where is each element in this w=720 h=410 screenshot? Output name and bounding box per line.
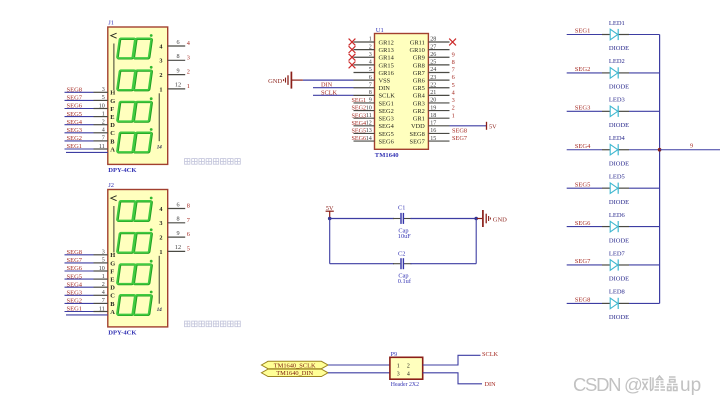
svg-text:SEG6: SEG6 <box>379 138 394 145</box>
svg-text:GR14: GR14 <box>379 55 395 62</box>
svg-text:Header 2X2: Header 2X2 <box>391 382 419 388</box>
svg-text:6: 6 <box>176 39 179 46</box>
U1 left pin 10 SEG2 <box>354 105 394 115</box>
svg-text:3: 3 <box>102 250 105 256</box>
svg-text:3: 3 <box>159 220 162 227</box>
J2 extra wire below pin A <box>66 314 108 316</box>
svg-text:F: F <box>110 268 114 275</box>
svg-text:5: 5 <box>102 258 105 264</box>
wire port DIN to header <box>328 372 390 374</box>
no-connect X on U1 pin 28 <box>449 39 456 46</box>
J1 pin 9 (digit 2) net 2 <box>159 67 190 79</box>
svg-text:J2: J2 <box>108 182 114 189</box>
svg-text:GR9: GR9 <box>413 55 425 62</box>
svg-text:DPY-4CK: DPY-4CK <box>108 167 137 174</box>
svg-text:SEG6: SEG6 <box>67 103 83 110</box>
svg-text:DIODE: DIODE <box>609 199 629 206</box>
J2 pin 8 (digit 3) net 7 <box>159 216 190 228</box>
J1 pin 6 (digit 4) net 4 <box>159 39 190 51</box>
svg-text:SEG4: SEG4 <box>379 123 395 130</box>
U1 right pin 21 GR4 <box>413 90 450 100</box>
svg-text:22: 22 <box>430 82 436 88</box>
svg-text:G: G <box>110 98 115 105</box>
svg-text:SEG3: SEG3 <box>67 290 83 297</box>
svg-text:SEG7: SEG7 <box>67 95 83 102</box>
J2 7-seg digit 1 <box>117 197 153 221</box>
LED4 diode <box>567 144 660 155</box>
svg-text:9: 9 <box>176 67 179 74</box>
svg-text:B: B <box>110 301 115 308</box>
watermark CSDN @liuxinleiup <box>573 374 701 396</box>
svg-text:1: 1 <box>369 37 372 43</box>
U1 right pin 25 GR8 <box>413 60 450 70</box>
svg-text:21: 21 <box>430 90 436 96</box>
svg-text:1: 1 <box>159 249 162 256</box>
svg-text:LED7: LED7 <box>609 250 626 257</box>
svg-text:20: 20 <box>430 98 436 104</box>
svg-text:GND: GND <box>268 78 282 85</box>
J2 pin 7 (B) net SEG2 <box>65 298 116 308</box>
svg-text:28: 28 <box>430 37 436 43</box>
svg-text:4: 4 <box>369 60 372 66</box>
svg-text:SCLK: SCLK <box>482 351 499 358</box>
svg-text:2: 2 <box>452 105 455 112</box>
svg-text:C1: C1 <box>398 205 405 212</box>
wire SCLK to U1 pin 8 <box>313 94 354 96</box>
svg-text:SEG3: SEG3 <box>67 127 83 134</box>
svg-text:up: up <box>680 375 701 396</box>
svg-text:SEG7: SEG7 <box>67 257 83 264</box>
svg-text:DPY-4CK: DPY-4CK <box>108 329 137 336</box>
U1 left pin 2 GR13 <box>354 44 394 54</box>
wire 5V to C1 <box>330 218 394 220</box>
svg-text:G: G <box>110 260 115 267</box>
svg-text:19: 19 <box>430 105 436 111</box>
J1 pin 5 (G) net SEG7 <box>65 95 116 105</box>
svg-text:GR12: GR12 <box>379 39 394 46</box>
U1 left pin 9 SEG1 <box>354 98 394 108</box>
U1 right pin 17 VDD <box>411 121 450 131</box>
svg-text:SEG5: SEG5 <box>352 129 367 135</box>
J1 7-seg digit 2 <box>117 66 153 90</box>
svg-text:GR15: GR15 <box>379 62 394 69</box>
svg-text:25: 25 <box>430 60 436 66</box>
ground symbol right of C1 <box>477 210 491 227</box>
U1 right pin 22 GR5 <box>413 82 450 92</box>
svg-text:SEG1: SEG1 <box>67 306 83 313</box>
svg-text:SEG1: SEG1 <box>379 100 394 107</box>
svg-text:7: 7 <box>369 82 372 88</box>
junction dot at right vertical <box>474 217 478 221</box>
svg-text:10: 10 <box>99 103 105 109</box>
J2 7-seg digit 2 <box>117 228 153 252</box>
J2 pin 10 (F) net SEG6 <box>65 265 115 275</box>
svg-text:6: 6 <box>187 231 190 238</box>
no-connect X on U1 pin 3 <box>349 54 356 61</box>
svg-text:CSDN @: CSDN @ <box>573 374 642 395</box>
svg-text:5V: 5V <box>489 123 497 130</box>
svg-text:3: 3 <box>397 371 400 377</box>
svg-text:24: 24 <box>430 67 436 73</box>
J1 pin 12 (digit 1) net 1 <box>159 82 190 94</box>
svg-text:SEG1: SEG1 <box>67 143 83 150</box>
U1 left pin 13 SEG5 <box>354 128 394 138</box>
U1 left pin 3 GR14 <box>354 52 395 62</box>
J2 pin 3 (H) net SEG8 <box>65 249 116 259</box>
svg-text:SEG3: SEG3 <box>379 116 394 123</box>
port TM1640_DIN <box>261 369 328 377</box>
wire port SCLK to header <box>328 364 390 366</box>
wire bottom left to C2 <box>330 263 394 265</box>
+5V power port at U1 VDD <box>486 122 488 130</box>
svg-text:9: 9 <box>690 143 693 150</box>
svg-text:C: C <box>110 293 115 300</box>
svg-text:SEG8: SEG8 <box>575 297 591 304</box>
U1 left pin 5 GR16 <box>354 67 394 77</box>
svg-text:DIN: DIN <box>321 82 333 89</box>
svg-text:E: E <box>110 114 114 121</box>
svg-text:P9: P9 <box>391 351 398 358</box>
svg-text:12: 12 <box>175 82 181 89</box>
svg-text:SEG3: SEG3 <box>352 113 367 119</box>
svg-text:GR2: GR2 <box>413 108 425 115</box>
svg-text:GR6: GR6 <box>413 78 425 85</box>
svg-text:11: 11 <box>366 113 372 119</box>
J2 pin 4 (C) net SEG3 <box>65 290 116 300</box>
svg-text:DIODE: DIODE <box>609 160 629 167</box>
svg-text:7: 7 <box>187 217 190 224</box>
svg-text:SEG1: SEG1 <box>352 98 367 104</box>
svg-text:SEG5: SEG5 <box>67 111 83 118</box>
svg-text:GR11: GR11 <box>410 39 425 46</box>
svg-text:LED5: LED5 <box>609 173 625 180</box>
J2 pin 2 (D) net SEG4 <box>65 281 116 291</box>
svg-text:13: 13 <box>366 128 372 134</box>
svg-text:GR7: GR7 <box>413 70 426 77</box>
no-connect X on U1 pin 1 <box>349 39 356 46</box>
+5V power port above capacitor loop <box>326 205 334 218</box>
svg-text:1: 1 <box>102 111 105 117</box>
svg-text:C: C <box>110 130 115 137</box>
svg-text:4: 4 <box>407 371 410 377</box>
U1 left pin 7 DIN <box>354 82 391 92</box>
svg-text:SEG8: SEG8 <box>67 249 83 256</box>
svg-text:2: 2 <box>369 44 372 50</box>
svg-text:3: 3 <box>187 54 190 61</box>
svg-text:GR16: GR16 <box>379 70 394 77</box>
LED6 diode <box>567 221 660 232</box>
J2 7-seg digit 4 <box>117 291 153 315</box>
svg-text:D: D <box>110 285 115 292</box>
svg-text:LED1: LED1 <box>609 20 625 27</box>
svg-text:SEG2: SEG2 <box>67 298 83 305</box>
svg-text:3: 3 <box>159 58 162 65</box>
wire right vertical of cap loop <box>475 219 477 264</box>
svg-text:SEG6: SEG6 <box>352 136 367 142</box>
wire C1 to GND <box>411 218 478 220</box>
svg-text:SEG2: SEG2 <box>575 66 591 73</box>
svg-text:SEG4: SEG4 <box>352 121 367 127</box>
svg-text:SEG4: SEG4 <box>67 281 83 288</box>
display J2 DPY-4CK body <box>108 190 168 327</box>
svg-text:LED8: LED8 <box>609 289 625 296</box>
svg-text:2: 2 <box>159 235 162 242</box>
svg-text:5: 5 <box>187 245 190 252</box>
svg-text:SEG8: SEG8 <box>410 131 425 138</box>
svg-text:SCLK: SCLK <box>379 93 396 100</box>
wire C2 to right vertical <box>411 263 477 265</box>
svg-text:C2: C2 <box>398 251 405 258</box>
svg-text:14: 14 <box>366 136 372 142</box>
J1 pin 11 (A) net SEG1 <box>65 143 116 153</box>
svg-text:SCLK: SCLK <box>321 89 338 96</box>
svg-text:12: 12 <box>175 244 181 251</box>
U1 left pin 4 GR15 <box>354 60 394 70</box>
svg-text:DIODE: DIODE <box>609 314 629 321</box>
svg-text:8: 8 <box>187 203 190 210</box>
wire header pin2 to SCLK label <box>423 355 481 365</box>
svg-text:8: 8 <box>452 59 455 66</box>
svg-text:B: B <box>110 138 115 145</box>
svg-text:GR3: GR3 <box>413 100 425 107</box>
LED3 diode <box>567 106 660 117</box>
svg-text:SEG5: SEG5 <box>379 131 394 138</box>
U1 left pin 6 VSS <box>354 75 391 85</box>
svg-text:LED4: LED4 <box>609 135 626 142</box>
svg-text:1: 1 <box>102 274 105 280</box>
J2 pin 12 (digit 1) net 5 <box>159 244 190 256</box>
svg-text:LED6: LED6 <box>609 212 626 219</box>
U1 right pin 16 SEG8 <box>410 128 450 138</box>
wire U1 VSS to GND <box>303 79 354 81</box>
J1 pin 2 (D) net SEG4 <box>65 119 116 129</box>
svg-text:2: 2 <box>187 69 190 76</box>
svg-text:5: 5 <box>369 67 372 73</box>
svg-text:LED3: LED3 <box>609 97 625 104</box>
svg-text:DIODE: DIODE <box>609 45 629 52</box>
port TM1640_SCLK <box>261 361 328 369</box>
svg-text:1: 1 <box>452 112 455 119</box>
junction dot at LED4 row <box>658 148 662 152</box>
P9 pin numbers <box>397 363 410 377</box>
svg-text:12: 12 <box>366 121 372 127</box>
vertical bus wire joining LED cathodes <box>659 35 661 304</box>
LED2 diode <box>567 67 660 78</box>
U1 right pin 26 GR9 <box>413 52 450 62</box>
svg-text:1: 1 <box>187 83 190 90</box>
header P9 body <box>390 357 423 379</box>
svg-text:9: 9 <box>369 98 372 104</box>
J2 pin 1 (E) net SEG5 <box>65 273 115 283</box>
J1 pin 1 (E) net SEG5 <box>65 111 115 121</box>
IC U1 TM1640 body <box>375 34 429 150</box>
U1 right pin 15 SEG7 <box>410 136 450 146</box>
no-connect X on U1 pin 4 <box>349 62 356 69</box>
svg-text:0.1uf: 0.1uf <box>398 278 412 285</box>
svg-text:GR5: GR5 <box>413 85 425 92</box>
annotation text beside J2 <box>185 321 241 327</box>
U1 right pin 27 GR10 <box>410 44 450 54</box>
svg-text:2: 2 <box>102 282 105 288</box>
svg-text:3: 3 <box>452 97 455 104</box>
U1 right pin 24 GR7 <box>413 67 450 77</box>
svg-text:SEG5: SEG5 <box>575 181 591 188</box>
J1 pin 3 (H) net SEG8 <box>65 87 116 97</box>
svg-text:DIODE: DIODE <box>609 237 629 244</box>
svg-text:DIODE: DIODE <box>609 84 629 91</box>
J1 pin 8 (digit 3) net 3 <box>159 53 190 65</box>
J1 7-seg digit 4 <box>117 128 153 152</box>
J2 7-seg digit 3 <box>117 260 153 284</box>
svg-text:SEG3: SEG3 <box>575 105 591 112</box>
svg-text:6: 6 <box>176 201 179 208</box>
svg-text:10: 10 <box>366 105 372 111</box>
svg-text:GND: GND <box>493 216 507 223</box>
J2 pin 6 (digit 4) net 8 <box>159 201 190 213</box>
svg-text:7: 7 <box>102 136 105 142</box>
svg-text:DIODE: DIODE <box>609 122 629 129</box>
svg-text:H: H <box>110 90 115 97</box>
svg-text:6: 6 <box>369 75 372 81</box>
svg-text:4: 4 <box>102 290 105 296</box>
svg-text:SEG2: SEG2 <box>352 106 367 112</box>
ground symbol at U1 VSS <box>284 72 303 89</box>
LED5 diode <box>567 183 660 194</box>
svg-text:TM1640: TM1640 <box>375 152 400 159</box>
svg-text:E: E <box>110 277 114 284</box>
svg-text:TM1640_SCLK: TM1640_SCLK <box>274 362 316 369</box>
U1 right pin 23 GR6 <box>413 75 450 85</box>
J2 pin 5 (G) net SEG7 <box>65 257 116 267</box>
svg-text:8: 8 <box>176 53 179 60</box>
svg-text:7: 7 <box>102 298 105 304</box>
svg-text:10uF: 10uF <box>398 233 411 240</box>
svg-text:8: 8 <box>369 90 372 96</box>
svg-text:SEG1: SEG1 <box>575 28 591 35</box>
capacitor C1 <box>393 213 412 224</box>
svg-text:LED2: LED2 <box>609 58 625 65</box>
display J1 DPY-4CK body <box>108 27 168 164</box>
U1 left pin 14 SEG6 <box>354 136 394 146</box>
svg-text:2: 2 <box>102 120 105 126</box>
svg-text:U1: U1 <box>376 27 384 34</box>
svg-text:SEG6: SEG6 <box>67 265 83 272</box>
wire from bus to net 9 at right edge <box>660 149 720 151</box>
svg-text:2: 2 <box>407 363 410 369</box>
svg-text:6: 6 <box>452 74 455 81</box>
U1 right pin 18 GR1 <box>413 113 450 123</box>
LED8 diode <box>567 298 660 309</box>
J1 pin 4 (C) net SEG3 <box>65 127 116 137</box>
svg-text:VSS: VSS <box>379 78 391 85</box>
svg-text:H: H <box>110 252 115 259</box>
svg-text:17: 17 <box>430 121 436 127</box>
svg-text:5: 5 <box>452 82 455 89</box>
J2 pin 9 (digit 2) net 6 <box>159 230 190 242</box>
LED1 diode <box>567 29 660 40</box>
svg-text:14: 14 <box>157 146 163 151</box>
J1 7-seg digit 3 <box>117 97 153 121</box>
svg-text:VDD: VDD <box>411 123 425 130</box>
svg-text:DIN: DIN <box>379 85 391 92</box>
svg-text:18: 18 <box>430 113 436 119</box>
svg-text:3: 3 <box>102 87 105 93</box>
annotation text beside J1 <box>185 159 241 165</box>
J1 extra wire below pin A <box>66 151 108 153</box>
svg-text:23: 23 <box>430 75 436 81</box>
svg-text:SEG6: SEG6 <box>575 220 591 227</box>
svg-text:8: 8 <box>176 216 179 223</box>
J1 pin 10 (F) net SEG6 <box>65 103 115 113</box>
wire U1 VDD to +5V <box>450 125 487 127</box>
wire DIN to U1 pin 7 <box>313 87 354 89</box>
svg-text:3: 3 <box>369 52 372 58</box>
svg-text:5: 5 <box>102 95 105 101</box>
svg-text:1: 1 <box>159 86 162 93</box>
J1 7-seg digit 1 <box>117 34 153 58</box>
wire header pin4 to DIN label <box>423 373 482 384</box>
svg-text:GR1: GR1 <box>413 116 425 123</box>
svg-text:14: 14 <box>157 308 163 313</box>
svg-text:TM1640_DIN: TM1640_DIN <box>276 370 313 377</box>
svg-text:A: A <box>110 309 115 316</box>
svg-text:SEG7: SEG7 <box>575 258 591 265</box>
svg-text:GR13: GR13 <box>379 47 394 54</box>
svg-text:16: 16 <box>430 128 436 134</box>
svg-text:SEG2: SEG2 <box>379 108 394 115</box>
svg-text:1: 1 <box>397 363 400 369</box>
J2 pin 11 (A) net SEG1 <box>65 306 116 316</box>
junction dot at 5V corner <box>328 217 332 221</box>
svg-text:9: 9 <box>452 51 455 58</box>
U1 left pin 12 SEG4 <box>354 121 395 131</box>
svg-text:DIODE: DIODE <box>609 276 629 283</box>
svg-text:11: 11 <box>99 144 105 150</box>
svg-text:26: 26 <box>430 52 436 58</box>
svg-text:GR10: GR10 <box>410 47 425 54</box>
svg-text:2: 2 <box>159 72 162 79</box>
no-connect X on U1 pin 2 <box>349 46 356 53</box>
U1 right pin 28 GR11 <box>410 37 450 47</box>
svg-text:GR4: GR4 <box>413 93 426 100</box>
svg-text:J1: J1 <box>108 20 114 27</box>
svg-text:GR8: GR8 <box>413 62 425 69</box>
svg-text:A: A <box>110 146 115 153</box>
svg-text:DIN: DIN <box>485 381 497 388</box>
svg-text:SEG7: SEG7 <box>410 138 426 145</box>
U1 left pin 8 SCLK <box>354 90 396 100</box>
svg-text:27: 27 <box>430 44 436 50</box>
svg-text:SEG5: SEG5 <box>67 273 83 280</box>
svg-text:D: D <box>110 122 115 129</box>
svg-text:11: 11 <box>99 306 105 312</box>
U1 left pin 11 SEG3 <box>354 113 394 123</box>
capacitor C2 <box>393 258 412 269</box>
svg-text:SEG4: SEG4 <box>575 143 591 150</box>
svg-text:15: 15 <box>430 136 436 142</box>
wire left vertical of cap loop <box>329 219 331 264</box>
svg-text:SEG7: SEG7 <box>452 135 467 142</box>
svg-text:F: F <box>110 106 114 113</box>
U1 right pin 20 GR3 <box>413 98 450 108</box>
LED7 diode <box>567 259 660 270</box>
J1 pin 7 (B) net SEG2 <box>65 135 116 145</box>
svg-text:SEG8: SEG8 <box>67 87 83 94</box>
U1 right pin 19 GR2 <box>413 105 450 115</box>
svg-text:4: 4 <box>102 128 105 134</box>
svg-text:10: 10 <box>99 266 105 272</box>
U1 left pin 1 GR12 <box>354 37 394 47</box>
